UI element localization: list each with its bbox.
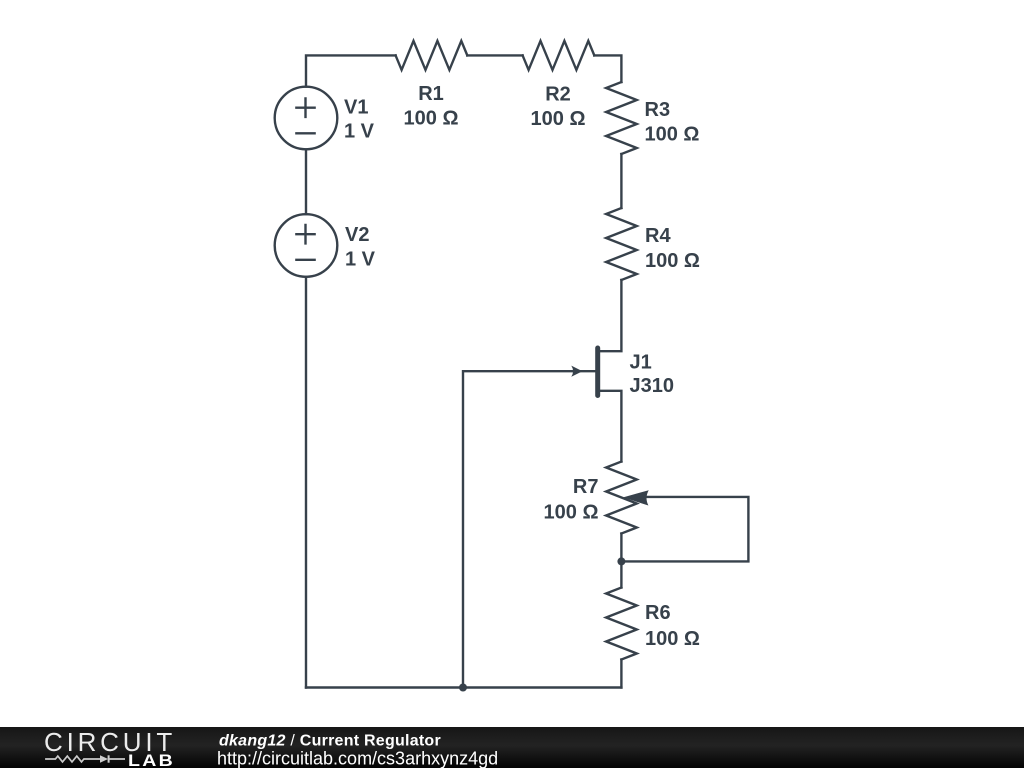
wire R7 to R6 [620,534,622,588]
svg-text:J1: J1 [630,352,652,374]
resistor R4 [606,208,637,280]
voltage source V2 [275,214,338,277]
R7 wiper arrow [623,490,649,505]
svg-text:dkang12 / Current Regulator: dkang12 / Current Regulator [219,733,441,750]
wire bottom rail [306,686,621,688]
resistor R7 (potentiometer body) [606,462,637,534]
svg-text:100 Ω: 100 Ω [531,108,586,130]
resistor R6 [606,588,637,660]
svg-text:R4: R4 [645,225,671,247]
resistor R1 [396,41,468,70]
logo diode [100,755,125,762]
svg-text:http://circuitlab.com/cs3arhxy: http://circuitlab.com/cs3arhxynz4gd [217,749,498,768]
node junction dot gate rail on bottom rail [459,684,467,692]
svg-text:J310: J310 [630,375,675,397]
wire J1 source to R7 [598,391,621,462]
wire R6 to bottom rail [620,660,622,688]
svg-text:100 Ω: 100 Ω [645,250,700,272]
wire top-right corner from R2 to R3 [594,55,621,82]
wire R4 to J1 drain [598,280,621,351]
svg-text:R6: R6 [645,602,671,624]
svg-text:R7: R7 [573,476,599,498]
footer bar [0,727,1024,768]
svg-text:V2: V2 [345,224,369,246]
wire gate of J1 to bottom rail [463,371,595,687]
resistor R3 [606,82,637,154]
svg-text:1 V: 1 V [344,121,375,143]
svg-text:1 V: 1 V [345,249,376,271]
svg-text:100 Ω: 100 Ω [404,108,459,130]
wire top-left corner from V1 to R1 [306,55,396,86]
node junction dot R7 wiper to bottom of R7 [617,557,625,565]
wire between V1 and V2 [305,150,307,215]
svg-text:R3: R3 [645,99,671,121]
svg-text:R2: R2 [545,84,571,106]
wire left rail below V2 [305,277,307,688]
svg-text:100 Ω: 100 Ω [645,124,700,146]
wire between R1 and R2 [467,54,522,56]
svg-text:V1: V1 [344,97,368,119]
wire R7 wiper loop [621,497,748,562]
logo schematic wire with resistor [45,756,100,762]
svg-text:R1: R1 [418,83,444,105]
svg-text:100 Ω: 100 Ω [645,628,700,650]
svg-text:LAB: LAB [128,750,175,768]
wire between R3 and R4 [620,154,622,208]
svg-text:100 Ω: 100 Ω [544,502,599,524]
voltage source V1 [275,87,338,150]
resistor R2 [523,41,595,70]
transistor J1 (JFET) [571,348,597,396]
